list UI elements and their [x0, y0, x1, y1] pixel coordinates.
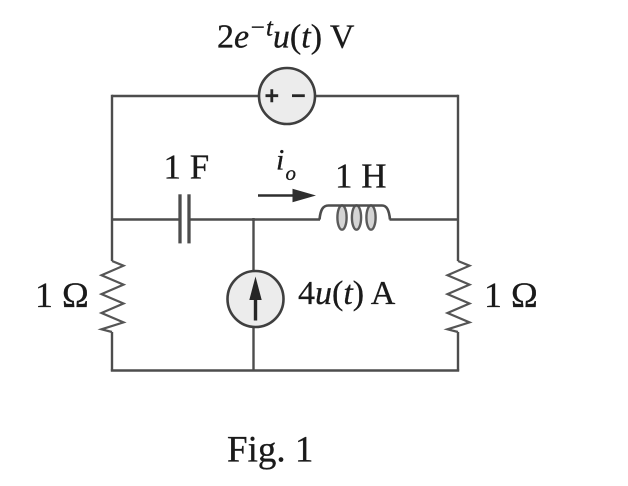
voltage source V1	[259, 68, 315, 124]
wire middle branch upper	[252, 220, 254, 272]
wire right vertical upper	[457, 95, 459, 261]
wire right vertical lower	[457, 332, 459, 371]
svg-text:1 Ω: 1 Ω	[35, 275, 89, 315]
capacitor C (1 F)	[180, 194, 189, 243]
svg-text:o: o	[286, 161, 297, 185]
wire top-right segment	[315, 95, 458, 97]
wire middle-right segment	[390, 218, 459, 220]
wire middle-center segment	[191, 218, 321, 220]
node middle junction	[252, 218, 254, 221]
current source I1 (4u(t) A)	[228, 271, 284, 327]
resistor R1 (left 1 ohm)	[102, 261, 124, 332]
wire left vertical upper	[111, 95, 113, 261]
resistor R2 value label 1 ohm	[484, 275, 538, 315]
caption Fig. 1	[227, 430, 313, 471]
svg-text:i: i	[276, 144, 284, 177]
svg-text:4u(t) A: 4u(t) A	[298, 275, 396, 312]
current label i_o	[276, 144, 296, 186]
wire top-left segment	[112, 95, 259, 97]
wire middle-left segment	[112, 218, 179, 220]
svg-text:1 Ω: 1 Ω	[484, 275, 538, 315]
capacitor value label 1 F	[164, 148, 210, 187]
wire middle branch lower	[252, 327, 254, 371]
svg-text:2e−tu(t) V: 2e−tu(t) V	[217, 15, 355, 56]
resistor R2 (right 1 ohm)	[448, 261, 470, 332]
inductor value label 1 H	[335, 157, 387, 196]
voltage source value label 2e^-t u(t) V	[217, 15, 355, 56]
svg-text:Fig. 1: Fig. 1	[227, 430, 313, 471]
inductor L (1 H)	[320, 205, 391, 229]
svg-text:1 F: 1 F	[164, 148, 210, 187]
svg-text:1 H: 1 H	[335, 157, 387, 196]
wire bottom segment	[111, 369, 459, 372]
current source value label 4u(t) A	[298, 275, 396, 312]
wire left vertical lower	[111, 332, 113, 371]
current arrow i_o	[258, 189, 316, 203]
resistor R1 value label 1 ohm	[35, 275, 89, 315]
